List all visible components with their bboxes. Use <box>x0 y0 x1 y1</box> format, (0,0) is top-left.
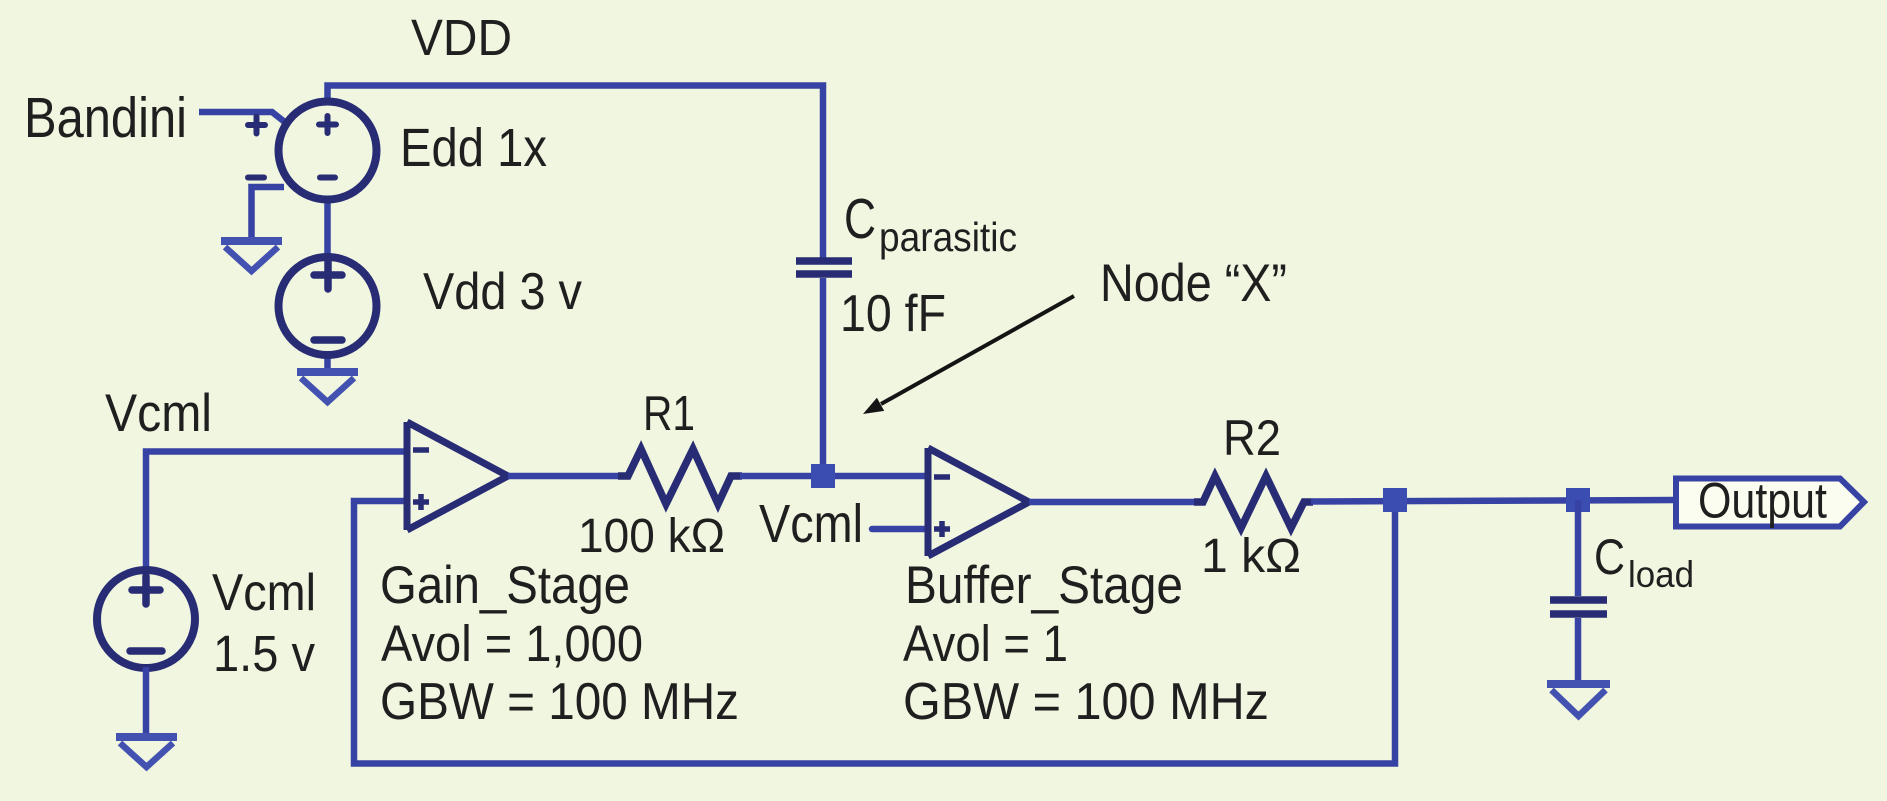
svg-text:parasitic: parasitic <box>879 214 1017 260</box>
node 3 junction square <box>1566 488 1590 512</box>
wire Vdd source bottom to ground G2 <box>324 354 331 371</box>
svg-text:GBW = 100 MHz: GBW = 100 MHz <box>380 673 739 731</box>
wire Cparasitic bottom to node X <box>820 278 827 468</box>
wire Vcml net to gain stage minus input <box>146 452 407 569</box>
svg-text:Vcml: Vcml <box>759 494 863 554</box>
svg-text:Node “X”: Node “X” <box>1100 254 1287 313</box>
svg-text:R1: R1 <box>643 387 695 441</box>
wire node 3 down to Cload <box>1575 500 1582 596</box>
svg-text:Edd 1x: Edd 1x <box>400 118 547 178</box>
voltage source Vcml 1.5v <box>97 570 195 668</box>
svg-text:C: C <box>1594 529 1625 585</box>
wire Vcml stub to buffer plus input <box>872 526 928 533</box>
svg-text:1.5 v: 1.5 v <box>213 625 315 682</box>
voltage-controlled source E: Edd 1x <box>248 102 377 200</box>
wire R2 to node 2, node 3 and output flag <box>1311 500 1676 502</box>
svg-text:Gain_Stage: Gain_Stage <box>380 556 630 615</box>
node X junction square <box>811 464 835 488</box>
capacitor Cparasitic plates <box>796 261 852 274</box>
resistor R2 zigzag <box>1194 476 1313 528</box>
svg-text:GBW = 100 MHz: GBW = 100 MHz <box>903 673 1269 731</box>
output flag symbol <box>1676 479 1864 527</box>
svg-text:Buffer_Stage: Buffer_Stage <box>905 556 1183 615</box>
ground G3 (Vcml source) <box>116 737 177 767</box>
arrow pointing to node X <box>881 296 1074 404</box>
resistor R1 zigzag <box>618 449 742 504</box>
voltage source Vdd 3v <box>279 257 377 355</box>
ground G2 (Vdd source) <box>297 372 358 402</box>
op-amp U1 Gain_Stage <box>407 422 508 530</box>
ground G1 (Edd minus) <box>221 241 282 271</box>
svg-text:Vcml: Vcml <box>105 384 212 443</box>
svg-text:VDD: VDD <box>411 9 512 66</box>
op-amp U2 Buffer_Stage <box>928 448 1029 556</box>
wire Edd bottom to Vdd source top <box>324 198 331 258</box>
ground G4 (Cload) <box>1547 684 1610 716</box>
svg-text:C: C <box>844 187 876 251</box>
svg-text:1 kΩ: 1 kΩ <box>1201 530 1301 583</box>
svg-text:Vcml: Vcml <box>212 564 316 622</box>
wire gain output to R1 <box>508 473 622 480</box>
wire R1 to node X <box>740 473 823 480</box>
svg-text:load: load <box>1628 554 1694 595</box>
svg-text:R2: R2 <box>1223 410 1281 466</box>
svg-text:Avol = 1,000: Avol = 1,000 <box>381 615 643 672</box>
wire Bandini input <box>199 112 286 123</box>
node 2 junction square <box>1383 488 1407 512</box>
svg-text:Output: Output <box>1698 473 1827 529</box>
svg-text:Vdd 3 v: Vdd 3 v <box>423 263 582 321</box>
capacitor Cload plates <box>1550 600 1607 614</box>
wire Cload to ground G4 <box>1575 618 1582 682</box>
svg-text:Bandini: Bandini <box>24 86 187 150</box>
wire Vcml source to ground G3 <box>143 667 150 736</box>
wire Edd minus to ground G1 <box>252 187 285 240</box>
wire node X to buffer minus input <box>823 473 928 480</box>
wire VDD rail from Edd top across to Cparasitic <box>328 86 824 259</box>
svg-text:10 fF: 10 fF <box>840 285 946 343</box>
feedback wire: gain plus input, down, across bottom, up to node 2 <box>354 500 1395 764</box>
svg-text:Avol = 1: Avol = 1 <box>903 615 1068 672</box>
wire buffer output to R2 <box>1029 499 1198 506</box>
